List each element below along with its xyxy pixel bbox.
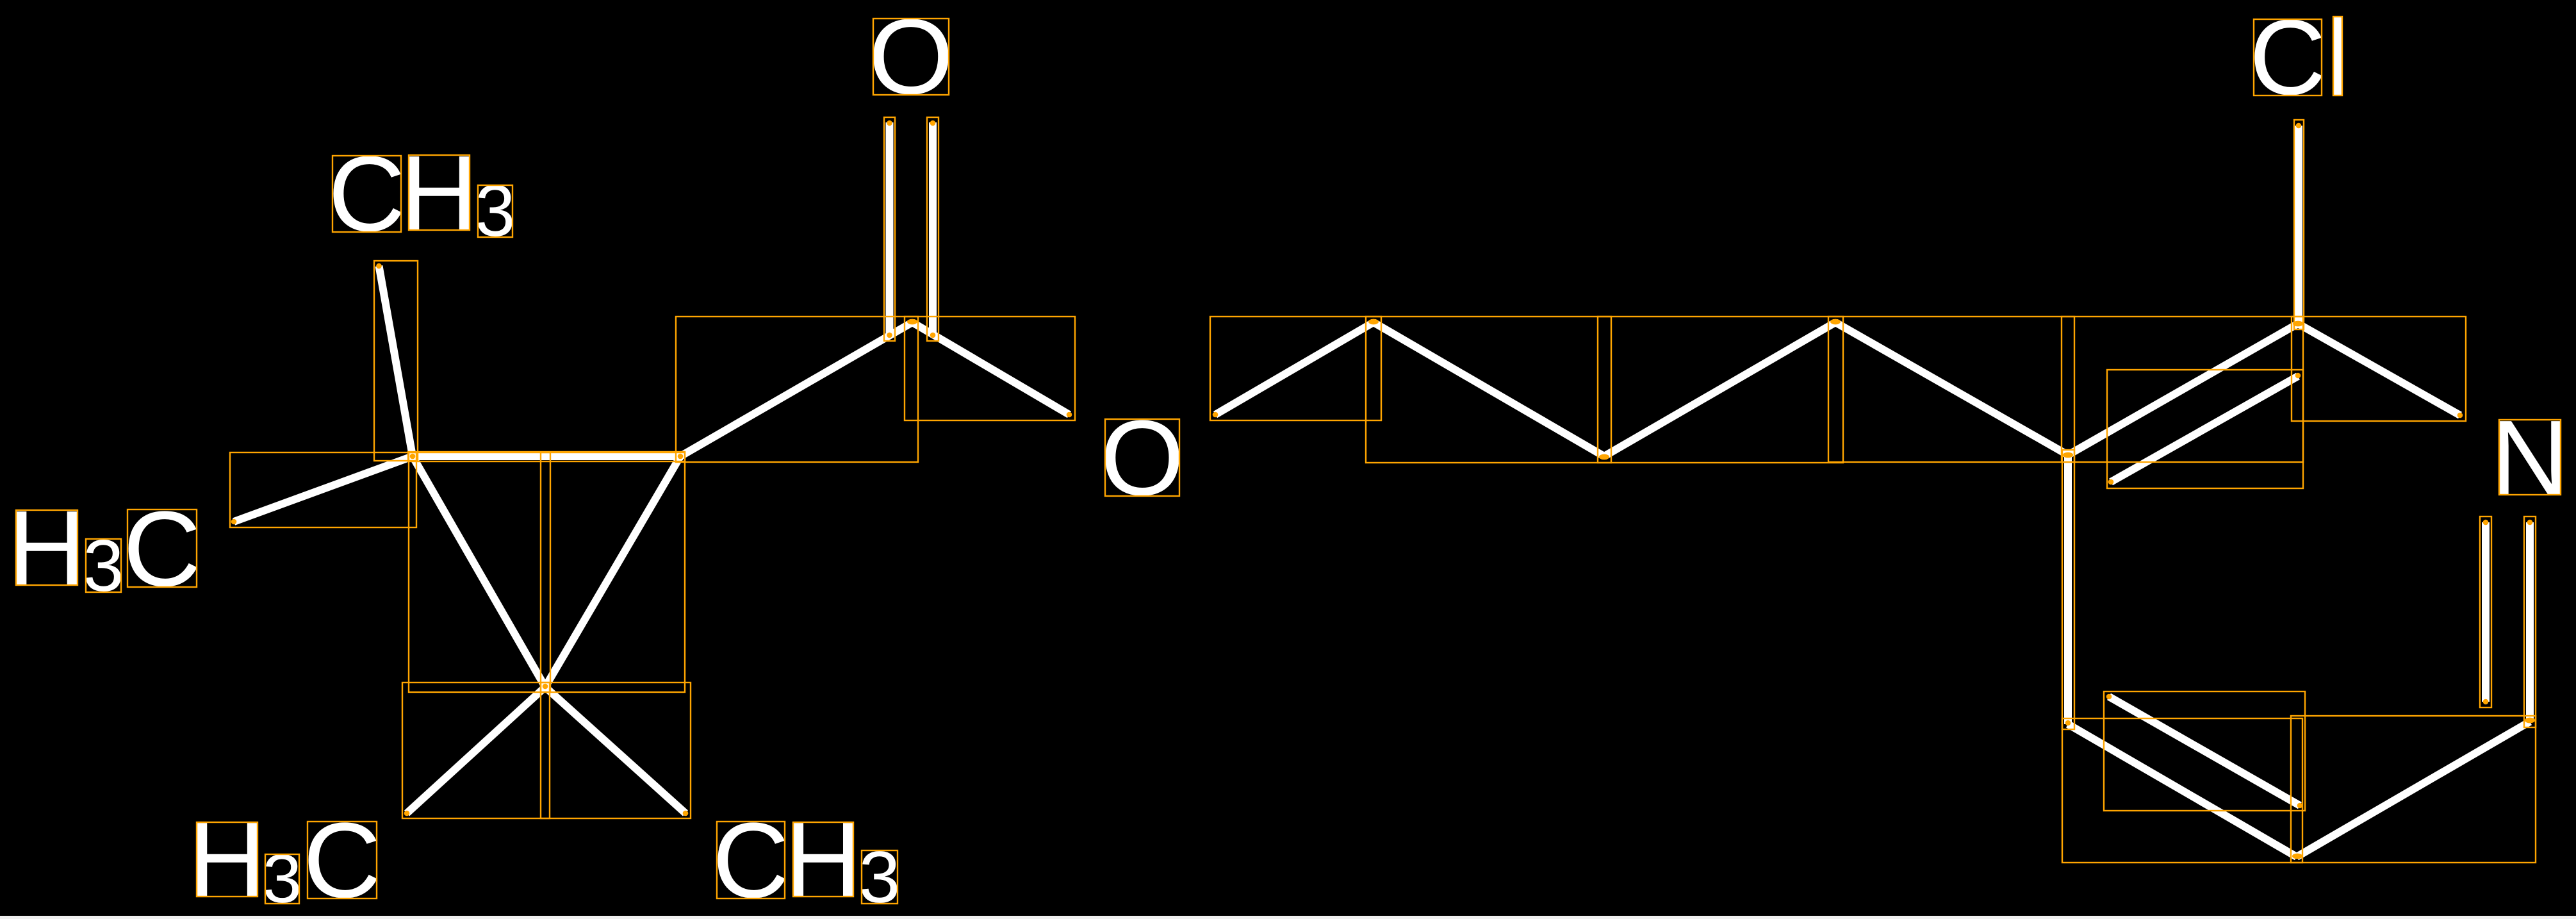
bond C2-Ccarbonyl: [680, 322, 912, 456]
box label 3 of CH3 top: [478, 185, 513, 237]
bond A6-A5 ring: [2064, 455, 2072, 724]
box bond C3-M4: [541, 683, 691, 818]
marker C1: [410, 454, 416, 459]
marker A3 pair: [2525, 718, 2535, 724]
marker E2: [1213, 412, 1218, 418]
marker A4 pair: [2292, 854, 2302, 859]
bond V1-P2 chain: [1604, 322, 1835, 456]
box label H of CH3 top: [409, 155, 470, 230]
svg-text:C: C: [328, 135, 406, 254]
marker P2 pair: [1830, 319, 1841, 325]
box bond C=O right: [927, 117, 939, 341]
svg-text:3: 3: [859, 837, 901, 918]
box label C of CH3 top: [332, 156, 401, 232]
bond C=O right line: [929, 122, 937, 336]
box label N: [2499, 420, 2561, 495]
marker M3: [404, 811, 410, 816]
bond A5-A4 ring: [2068, 724, 2297, 857]
svg-text:H: H: [188, 800, 267, 919]
marker N=A3 inner bottom: [2483, 699, 2489, 705]
box label C of H3C bottom: [308, 822, 377, 898]
marker A6=A1 inner upper end: [2295, 373, 2301, 379]
box label C of CH3 bottom: [717, 822, 785, 898]
marker N=A3 inner top: [2483, 520, 2489, 526]
svg-text:O: O: [1100, 399, 1184, 518]
bond N=A3 main line: [2526, 522, 2534, 722]
bond CH3(top) stem T1-C1: [379, 266, 413, 456]
bond A4-A3 ring: [2297, 722, 2530, 857]
box bond A1-N: [2292, 317, 2466, 421]
marker M4: [683, 811, 689, 816]
bond C1-M1 to H3C left: [234, 456, 413, 522]
marker A5=A4 inner upper end: [2106, 694, 2112, 700]
box label 3 of CH3 bottom: [862, 850, 898, 904]
bond A1-N: [2298, 324, 2460, 415]
box bond C1-C2: [408, 452, 685, 461]
box bond V1-P2: [1598, 317, 1843, 463]
box label C of H3C left: [127, 509, 197, 587]
box label H of H3C left: [16, 510, 78, 585]
bond C1-C3 ring left: [413, 456, 545, 687]
box label O ester: [1105, 419, 1179, 496]
box bond CH3 stem: [374, 261, 418, 461]
box bond E2-P1: [1210, 317, 1381, 420]
marker M1: [231, 519, 237, 525]
box bond A5-A4: [2062, 718, 2302, 863]
svg-text:H: H: [8, 489, 86, 608]
box bond Cl stem: [2294, 120, 2304, 329]
box bond A6=A1 inner: [2107, 370, 2303, 488]
box label C of Cl: [2254, 19, 2322, 95]
marker A6 pair: [2063, 452, 2073, 458]
svg-text:C: C: [2249, 0, 2326, 117]
svg-text:H: H: [785, 800, 862, 919]
box label H of H3C bottom: [197, 822, 258, 897]
svg-text:3: 3: [475, 170, 516, 252]
bond C2-C3 ring right: [545, 456, 680, 687]
bond P2-A6 chain to ring: [1835, 322, 2068, 455]
bond P1-V1 chain: [1374, 322, 1604, 456]
box bond C=O left: [884, 117, 895, 341]
marker C2: [678, 454, 684, 459]
marker P1 pair: [1368, 319, 1379, 325]
bond Ccarbonyl-E1 to ester O: [912, 322, 1069, 415]
box bond C1-M1: [230, 452, 416, 527]
svg-text:H: H: [400, 134, 479, 253]
bond N=A3 inner double line: [2482, 522, 2490, 702]
box label 3 of H3C left: [86, 539, 121, 592]
marker Cl stem top: [2296, 123, 2302, 129]
svg-text:3: 3: [83, 526, 124, 607]
svg-text:C: C: [123, 490, 201, 609]
svg-text:C: C: [303, 801, 381, 919]
bond A6-A1 ring: [2068, 324, 2298, 455]
bond C3-M4 to CH3 bottom: [545, 687, 685, 813]
box bond N=A3 main: [2524, 517, 2536, 727]
marker C=O left top: [887, 120, 892, 126]
box bond A6-A5: [2062, 450, 2074, 729]
marker C3: [543, 684, 548, 690]
box label l of Cl: [2333, 17, 2342, 95]
box bond P1-V1: [1366, 317, 1611, 463]
marker Ccarbonyl pair: [907, 319, 917, 325]
marker A6=A1 inner lower end: [2108, 479, 2114, 485]
bond C1-C2 ring top: [413, 452, 683, 460]
box bond A5=A4 inner: [2104, 691, 2305, 811]
box bond P2-A6: [1828, 317, 2074, 462]
marker C=O left bottom: [887, 333, 892, 338]
marker E1: [1067, 412, 1072, 418]
box bond C2-C3: [541, 452, 685, 692]
marker A5: [2065, 720, 2071, 726]
bond Cl stem: [2295, 126, 2302, 324]
box label 3 of H3C bottom: [265, 854, 299, 904]
marker V1 pair: [1599, 454, 1609, 460]
box bond C1-C3: [409, 452, 550, 692]
marker A1-N end: [2457, 413, 2463, 418]
svg-text:N: N: [2491, 399, 2570, 518]
svg-text:C: C: [712, 801, 789, 919]
svg-text:O: O: [868, 0, 954, 117]
box bond C2-Ccarbonyl: [676, 317, 918, 462]
bond A6=A1 inner double line: [2111, 376, 2298, 482]
svg-text:l: l: [2327, 0, 2348, 118]
box bond A6-A1: [2062, 317, 2303, 462]
box bond Ccarbonyl-E1: [905, 317, 1075, 420]
box label O carbonyl: [873, 19, 949, 95]
box bond N=A3 inner: [2480, 517, 2491, 708]
marker N=A3 main top: [2527, 520, 2533, 526]
bond C=O left line: [886, 122, 894, 336]
box label H of CH3 bottom: [793, 822, 853, 897]
marker T1: [376, 263, 382, 269]
marker A1 pair: [2293, 321, 2303, 327]
svg-text:3: 3: [263, 840, 302, 917]
bond A5=A4 inner double line: [2109, 697, 2300, 806]
bottom white bar: [0, 916, 2576, 919]
marker C=O right top: [930, 120, 936, 126]
marker C=O right bottom: [930, 333, 936, 338]
bond E2-P1 from ester O: [1215, 322, 1374, 415]
bond C3-M3 to H3C bottom: [407, 687, 545, 813]
marker A5=A4 inner lower end: [2297, 803, 2303, 809]
box bond C3-M3: [402, 683, 550, 818]
box bond A4-A3: [2291, 716, 2536, 863]
